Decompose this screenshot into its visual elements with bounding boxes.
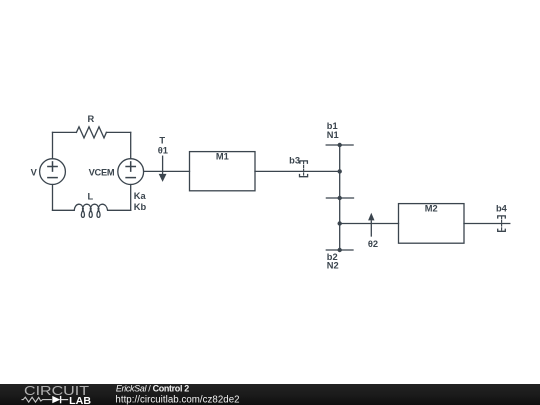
wire M2 to b4 — [464, 223, 510, 225]
svg-text:N1: N1 — [327, 130, 339, 140]
svg-text:R: R — [87, 114, 94, 124]
node junction M1 wire — [338, 169, 342, 173]
svg-text:θ1: θ1 — [158, 146, 168, 156]
arrow T theta1 — [162, 156, 164, 175]
arrow theta2 — [370, 221, 372, 236]
shaft N1-N2 — [339, 145, 341, 250]
block M2 — [399, 204, 465, 244]
logo diode — [52, 396, 60, 403]
footer bar — [0, 384, 540, 405]
svg-text:N2: N2 — [327, 261, 339, 271]
node dot N2 — [338, 248, 342, 252]
wire top right (R to VCEM top) — [106, 131, 130, 133]
voltage source V — [40, 159, 66, 185]
wire top left (V top to R) — [53, 131, 77, 133]
svg-text:b4: b4 — [496, 204, 508, 214]
block M1 — [190, 152, 256, 191]
svg-text:http://circuitlab.com/cz82de2: http://circuitlab.com/cz82de2 — [115, 394, 239, 405]
svg-text:θ2: θ2 — [368, 239, 378, 249]
wire left lower (V source to bottom) — [52, 185, 54, 211]
damper b4 top bracket — [498, 216, 506, 218]
damper b3 bottom bracket — [300, 175, 308, 177]
arrowhead theta2 — [368, 213, 374, 221]
svg-text:L: L — [87, 192, 93, 202]
wire left upper (top to V source) — [52, 132, 54, 158]
damper b4 dashed rod — [501, 216, 503, 230]
wire bottom left (to inductor L) — [53, 209, 75, 211]
node dot middle — [338, 196, 342, 200]
svg-text:V: V — [31, 167, 38, 177]
svg-text:VCEM: VCEM — [89, 167, 115, 177]
svg-text:M1: M1 — [216, 151, 229, 161]
wire shaft to M2 — [340, 223, 399, 225]
wire VCEM to M1 — [144, 170, 190, 172]
node dot N1 — [338, 143, 342, 147]
wire M1 to shaft — [255, 170, 340, 172]
node junction M2 wire — [338, 221, 342, 225]
svg-text:Kb: Kb — [134, 202, 147, 212]
svg-text:ErickSal / Control 2: ErickSal / Control 2 — [116, 384, 189, 394]
arrowhead theta1 — [159, 174, 167, 182]
wire right lower (VCEM to bottom) — [130, 185, 132, 211]
tick middle — [326, 197, 353, 199]
damper b3 dashed rod — [303, 162, 305, 177]
logo resistor squiggle — [22, 397, 52, 402]
tick N1 — [326, 144, 353, 146]
svg-text:Ka: Ka — [134, 191, 147, 201]
svg-text:b3: b3 — [289, 155, 300, 165]
damper b3 top bracket — [300, 161, 308, 163]
wire bottom right (inductor to VCEM bottom) — [108, 209, 131, 211]
svg-text:LAB: LAB — [69, 395, 91, 405]
resistor R — [76, 127, 106, 138]
inductor L — [74, 204, 107, 217]
svg-text:T: T — [159, 136, 165, 146]
damper b4 bottom bracket — [498, 229, 506, 231]
tick N2 — [326, 249, 353, 251]
voltage source VCEM — [118, 159, 144, 185]
wire right upper (top to VCEM) — [130, 132, 132, 158]
svg-text:M2: M2 — [425, 203, 438, 213]
